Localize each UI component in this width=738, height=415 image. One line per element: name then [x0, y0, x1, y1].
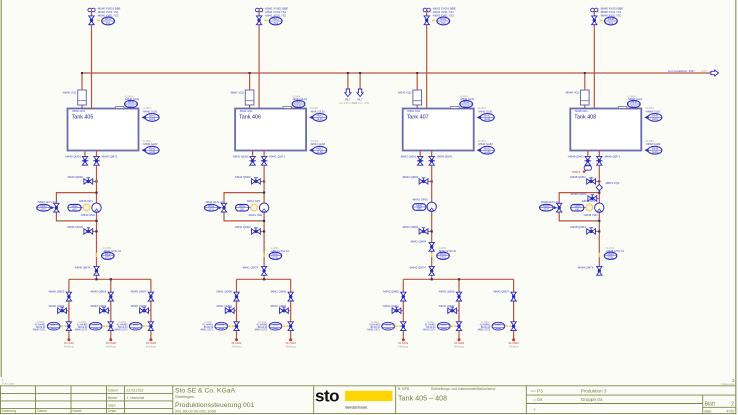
instrument M640 GT1 bubble — [102, 252, 115, 259]
svg-text:Tank 405 – 408: Tank 405 – 408 — [398, 394, 447, 403]
valve M642 QM01 — [417, 156, 424, 165]
wire QM03b stub — [588, 197, 599, 199]
wire QM02 stub — [587, 180, 599, 182]
instrument M642 GS71 bubble — [382, 322, 395, 330]
labels M640 XV01 — [94, 6, 121, 17]
node XL7A02 — [458, 338, 461, 341]
svg-text:M640: M640 — [149, 115, 156, 118]
labels M642 GT1 — [438, 247, 457, 253]
svg-text:Blatt: Blatt — [705, 409, 712, 413]
svg-text:-M641 QM02: -M641 QM02 — [234, 175, 251, 179]
valve M641 QM02 — [252, 178, 261, 184]
svg-text:-M640 QM01: -M640 QM01 — [65, 154, 82, 158]
drive symbol yellow — [251, 204, 258, 211]
pump M642 GP01 — [427, 202, 436, 211]
title block grid — [0, 386, 736, 414]
wire branch 406-1 — [236, 279, 238, 339]
wire tank 408 outlet main — [598, 151, 600, 157]
svg-text:-M641 GP1: -M641 GP1 — [246, 199, 261, 203]
svg-text:-M641 GT01 A1: -M641 GT01 A1 — [271, 249, 290, 253]
svg-text:-M640 GT01 A1: -M640 GT01 A1 — [103, 249, 122, 253]
node XL7A01 — [402, 338, 405, 341]
valve M642 QM71 — [428, 156, 435, 165]
svg-text:M642: M642 — [463, 101, 470, 104]
wire tank 408 outlet left — [587, 151, 589, 157]
wire tank 407 outlet left — [419, 151, 421, 157]
labels node XL7A02 — [454, 341, 465, 349]
labels M641 LS01 — [310, 107, 325, 113]
svg-text:Tank 406: Tank 406 — [239, 114, 261, 120]
labels branch sensor 407-3 — [477, 322, 491, 332]
instrument M642 LT1 top bubble — [460, 100, 473, 107]
label M640 LT1 — [125, 95, 140, 101]
valve loop M640 — [54, 203, 59, 212]
svg-text:-M642 QM01: -M642 QM01 — [400, 154, 417, 158]
inlet arrow RL1 — [345, 89, 351, 97]
valve M641 QM06 — [288, 292, 293, 301]
instrument M640 GS73 bubble — [129, 322, 142, 330]
node XL7A02 — [289, 338, 292, 341]
node top line tank 406 — [258, 12, 260, 113]
revision table labels — [2, 409, 82, 413]
svg-text:GL01: GL01 — [296, 105, 303, 108]
svg-text:Änderung: Änderung — [2, 409, 17, 413]
svg-text:XL7A01: XL7A01 — [398, 341, 409, 345]
svg-text:-M642 GS72: -M642 GS72 — [422, 329, 436, 331]
label M642 LT1 — [460, 95, 475, 101]
instrument M648 GF71 bubble — [540, 204, 554, 211]
signal dashes — [505, 325, 508, 327]
signal dashes — [395, 325, 398, 327]
inlet arrow RL2 — [357, 89, 363, 97]
wire tank 406 outlet main — [263, 151, 265, 157]
svg-text:-M648 GL01: -M648 GL01 — [627, 97, 642, 101]
wire main line 406 lower — [263, 165, 265, 266]
svg-text:-M642 GT01 A1: -M642 GT01 A1 — [438, 249, 457, 253]
wire QM72 stub — [280, 310, 291, 312]
svg-text:-M640 VQ1: -M640 VQ1 — [62, 91, 77, 95]
svg-text:Gepr.: Gepr. — [108, 404, 116, 408]
svg-text:-M640 GS71: -M640 GS71 — [32, 329, 46, 331]
svg-text:GL81: GL81 — [652, 118, 659, 121]
instrument M642 GS72 bubble — [437, 322, 450, 330]
svg-text:XV1: XV1 — [273, 22, 278, 25]
tank 406 labels — [239, 109, 261, 121]
labels M641 XV01 — [261, 6, 288, 17]
arrow to loop valve — [554, 206, 557, 209]
valve branch end 405-2 — [108, 322, 113, 331]
svg-text:M648: M648 — [652, 115, 659, 118]
pump M641 GP1 — [259, 203, 268, 212]
tank 408 labels — [574, 109, 596, 121]
svg-text:M648: M648 — [608, 18, 615, 21]
svg-text:XV1: XV1 — [609, 22, 614, 25]
svg-text:-M642 GL82: -M642 GL82 — [478, 142, 493, 146]
svg-text:Datum: Datum — [108, 389, 118, 393]
instrument M640 LS02 bubble — [142, 146, 160, 154]
svg-text:GL01: GL01 — [128, 105, 135, 108]
svg-text:-M642 GP01: -M642 GP01 — [412, 197, 428, 201]
instrument M648 LT1 top bubble — [627, 100, 640, 107]
wire stub RL1 — [347, 73, 349, 91]
valve M642 QM06 — [456, 292, 461, 301]
tank 408 — [570, 109, 641, 151]
svg-text:GL81: GL81 — [149, 118, 156, 121]
svg-text:M648: M648 — [631, 101, 638, 104]
svg-text:-M642 GS71: -M642 GS71 — [367, 329, 381, 331]
labels node XL7A03 — [508, 341, 519, 349]
svg-text:Abfüllung: Abfüllung — [398, 345, 409, 348]
valve M642 QM03 — [419, 228, 428, 234]
valve branch end 407-3 — [511, 322, 516, 331]
svg-text:Abfüllung: Abfüllung — [232, 345, 243, 348]
svg-text:-M641 QM71: -M641 QM71 — [269, 154, 286, 158]
svg-text:Produktion 3: Produktion 3 — [581, 389, 607, 394]
svg-text:-M642 GL01: -M642 GL01 — [460, 97, 475, 101]
svg-text:Tank 405: Tank 405 — [72, 114, 94, 120]
instrument M642 GT1 bubble — [437, 252, 450, 259]
svg-text:M641: M641 — [273, 18, 280, 21]
svg-text:XL7A02: XL7A02 — [106, 341, 117, 345]
svg-text:TNB74: TNB74 — [572, 170, 581, 174]
node XL7A01 — [235, 338, 238, 341]
node top line tank 407 — [426, 12, 428, 113]
labels node XL7A01 — [231, 341, 242, 349]
svg-text:-M642 QM71: -M642 QM71 — [382, 304, 399, 308]
svg-text:B. MPB: B. MPB — [398, 387, 410, 391]
svg-text:GL82: GL82 — [149, 151, 156, 154]
svg-text:-M642 QM05: -M642 QM05 — [382, 289, 399, 293]
svg-text:GF71: GF71 — [41, 208, 48, 211]
svg-text:-M642 GN1: -M642 GN1 — [407, 109, 421, 113]
tank 408 nozzle — [618, 107, 627, 109]
wire sample stub — [587, 164, 589, 167]
svg-text:XL7A02: XL7A02 — [286, 341, 297, 345]
labels branch sensor 406-2 — [254, 322, 268, 332]
valve loop M641 — [221, 203, 226, 212]
wire branch 406-2 — [290, 279, 292, 339]
svg-text:M640: M640 — [105, 18, 112, 21]
plant block — [531, 389, 607, 412]
svg-text:J. Hauschel: J. Hauschel — [127, 396, 145, 400]
valve M640 QM01 — [82, 156, 89, 165]
svg-text:-M641 QM03: -M641 QM03 — [234, 225, 251, 229]
svg-text:-M641 QM05: -M641 QM05 — [216, 289, 233, 293]
company block — [175, 387, 255, 413]
svg-text:GL82: GL82 — [317, 151, 324, 154]
svg-text:-M641 GL01: -M641 GL01 — [292, 97, 307, 101]
instrument M641 LT1 top bubble — [292, 100, 305, 107]
svg-text:-M640 QM71: -M640 QM71 — [48, 304, 65, 308]
svg-text:Tank 408: Tank 408 — [574, 114, 596, 120]
svg-text:von 4.04 u. 4.05: von 4.04 u. 4.05 — [351, 102, 370, 105]
instrument M641 GS71 bubble — [215, 322, 228, 330]
vent V407 — [423, 8, 430, 12]
valve M642 QM74 — [429, 266, 434, 275]
svg-text:M642: M642 — [440, 18, 447, 21]
wire header pipe — [82, 72, 713, 74]
svg-text:-M648 QM03: -M648 QM03 — [570, 192, 587, 196]
instrument M640 GS72 bubble — [89, 322, 102, 330]
labels node XL7A02 — [286, 341, 297, 349]
valve M641 XV01 — [256, 16, 261, 25]
svg-text:-M648 GL81: -M648 GL81 — [645, 109, 660, 113]
valve M641 QM74 — [261, 266, 266, 275]
svg-text:M641: M641 — [317, 147, 324, 150]
svg-text:-M641 GS71: -M641 GS71 — [200, 329, 214, 331]
svg-text:-M648 GT01 A1: -M648 GT01 A1 — [606, 249, 625, 253]
instrument M641 GF71 bubble — [204, 204, 218, 211]
instrument M640 LT1 top bubble — [125, 100, 138, 107]
svg-text:-M640 QM03: -M640 QM03 — [67, 225, 84, 229]
wire main line 408 lower — [598, 165, 600, 266]
node XL7A01 — [67, 338, 70, 341]
valve M640 QM71 — [58, 307, 67, 313]
labels M642 LS01 — [478, 107, 493, 113]
svg-text:-M640 QM02: -M640 QM02 — [67, 175, 84, 179]
tank 407 nozzle — [451, 107, 460, 109]
svg-text:-M648 QM71: -M648 QM71 — [604, 154, 621, 158]
labels node XL7A01 — [398, 341, 409, 349]
svg-text:XL7A03: XL7A03 — [508, 341, 519, 345]
instrument M642 XV1 bubble — [437, 17, 450, 25]
signal dashes — [282, 325, 285, 327]
labels node XL7A03 — [146, 341, 157, 349]
tank 405 nozzle — [116, 107, 125, 109]
instrument M640 GF71 bubble — [37, 204, 51, 211]
svg-text:-M641 GN1: -M641 GN1 — [239, 109, 253, 113]
wire branch 407-3 — [513, 279, 515, 339]
valve M640 QM03 — [84, 228, 93, 234]
valve M640 QM71 — [93, 156, 100, 165]
signal dashes — [60, 325, 63, 327]
wire manifold 406 — [237, 278, 291, 280]
svg-text:-M640 QM07: -M640 QM07 — [130, 289, 147, 293]
svg-text:001.09.02.00.001.1000: 001.09.02.00.001.1000 — [175, 409, 217, 414]
wire QM71 stub — [58, 310, 69, 312]
svg-text:-M648 GN1: -M648 GN1 — [574, 109, 588, 113]
svg-text:Blatt: Blatt — [705, 402, 716, 408]
labels M648 LS01 — [645, 107, 660, 113]
svg-text:GL01: GL01 — [463, 105, 470, 108]
page left border — [0, 0, 2, 377]
svg-text:-M642 GL81: -M642 GL81 — [478, 109, 493, 113]
svg-text:-M640 QM73: -M640 QM73 — [130, 304, 147, 308]
svg-text:Abfüllung: Abfüllung — [454, 345, 465, 348]
labels pump M648 GP1 — [581, 199, 598, 217]
svg-text:GL01: GL01 — [631, 105, 638, 108]
svg-text:-M648 VQ1: -M648 VQ1 — [565, 91, 580, 95]
labels branch sensor 405-2 — [74, 322, 88, 332]
signal dashes — [450, 325, 453, 327]
wire filter branch 406 — [249, 73, 251, 90]
svg-text:GL81: GL81 — [317, 118, 324, 121]
svg-text:M642: M642 — [484, 115, 491, 118]
svg-text:-M648 QM01: -M648 QM01 — [567, 154, 584, 158]
instrument M641 LS02 bubble — [309, 146, 327, 154]
tank 405 labels — [72, 109, 94, 121]
pump M640 GP1 — [92, 203, 101, 212]
svg-text:RL7: RL7 — [345, 98, 351, 102]
instrument M648 LS02 bubble — [644, 146, 662, 154]
valve M648 QM01 — [585, 156, 592, 165]
labels M648 GT1 — [606, 247, 625, 253]
arrow to loop valve — [219, 206, 222, 209]
labels pump M641 GP1 — [246, 199, 263, 217]
valve M648 QM03b — [588, 195, 597, 201]
instrument M641 XV1 bubble — [269, 17, 282, 25]
wire filter branch 405 — [81, 73, 83, 90]
wire tank 407 outlet main — [431, 151, 433, 157]
wire filter outlet — [584, 105, 586, 110]
svg-text:GF1: GF1 — [240, 208, 245, 211]
valve M640 QM74 — [94, 266, 99, 275]
svg-text:-M641 VQ1: -M641 VQ1 — [230, 91, 245, 95]
svg-text:-M648 XM1: -M648 XM1 — [583, 213, 598, 217]
svg-text:Urspr: Urspr — [108, 409, 117, 413]
labels branch sensor 405-1 — [32, 322, 46, 332]
svg-text:Gruppe 04: Gruppe 04 — [581, 397, 603, 402]
svg-text:GT01: GT01 — [440, 256, 447, 259]
wire QM02 stub — [252, 180, 264, 182]
vent V406 — [256, 8, 263, 12]
sheet block — [705, 402, 735, 414]
wire QM03 stub — [587, 230, 599, 232]
svg-text:-M648 GL82: -M648 GL82 — [645, 142, 660, 146]
schema block — [398, 387, 495, 402]
instrument M648 GT1 bubble — [604, 252, 617, 259]
wire QM03 stub — [419, 230, 431, 232]
svg-text:GT01: GT01 — [105, 256, 112, 259]
drive tick yellow — [96, 253, 98, 258]
svg-text:M648: M648 — [652, 147, 659, 150]
corner note left — [2, 378, 15, 386]
instrument M641 GF1 capsule — [236, 204, 251, 211]
svg-text:-M642 QM74: -M642 QM74 — [409, 265, 426, 269]
labels branch sensor 407-1 — [367, 322, 381, 332]
valve branch end 405-3 — [148, 322, 153, 331]
svg-text:GL81: GL81 — [484, 118, 491, 121]
valve M648 QM02 — [587, 178, 596, 184]
valve M642 QM07 — [511, 292, 516, 301]
filter M641 VQ1 — [245, 90, 254, 105]
wire filter branch 407 — [416, 73, 418, 90]
labels M642 LS02 — [478, 140, 493, 146]
wire filter outlet — [249, 105, 251, 110]
valve M641 QM72 — [280, 307, 289, 313]
svg-text:-M640 GL81: -M640 GL81 — [143, 109, 158, 113]
labels node XL7A01 — [64, 341, 75, 349]
drive symbol yellow — [586, 204, 593, 211]
svg-text:+: + — [533, 407, 536, 412]
drive tick yellow — [431, 253, 433, 258]
svg-text:GT01: GT01 — [608, 256, 615, 259]
wire branch 405-3 — [150, 279, 152, 339]
svg-text:M641: M641 — [317, 115, 324, 118]
labels branch sensor 406-1 — [200, 322, 214, 332]
svg-text:-M640 QM05: -M640 QM05 — [48, 289, 65, 293]
svg-text:zum Ansatzbeh. 409 /: zum Ansatzbeh. 409 / — [668, 69, 695, 73]
wire manifold 407 — [403, 278, 513, 280]
instrument M640 GF1 capsule — [68, 204, 83, 211]
wire stub RL2 — [359, 73, 361, 91]
valve loop M648 — [557, 203, 562, 212]
valve M640 QM73 — [140, 307, 149, 313]
svg-text:4705: 4705 — [726, 409, 734, 413]
wire tank 406 outlet left — [252, 151, 254, 157]
svg-text:-M642 QM71: -M642 QM71 — [436, 154, 453, 158]
wire QM72 stub — [448, 310, 459, 312]
svg-text:-M642 QM72: -M642 QM72 — [438, 304, 455, 308]
svg-text:-M648 GP1: -M648 GP1 — [581, 199, 596, 203]
wire QM71 stub — [225, 310, 236, 312]
valve M648 QM71 — [596, 156, 603, 165]
labels M640 GT1 — [103, 247, 122, 253]
svg-text:Bearb.: Bearb. — [108, 396, 118, 400]
svg-text:-M640 XM1: -M640 XM1 — [81, 213, 96, 217]
wire QM02 stub — [84, 180, 96, 182]
header outlet arrow — [711, 70, 719, 76]
node XL7A02 — [109, 338, 112, 341]
svg-text:-M641 QM71: -M641 QM71 — [216, 304, 233, 308]
instrument M641 LS01 bubble — [309, 114, 327, 122]
labels M642 XV01 — [429, 6, 456, 17]
signal dashes — [228, 325, 231, 327]
svg-text:Kufe Sato: Kufe Sato — [2, 382, 15, 386]
instrument M640 GS71 bubble — [47, 322, 60, 330]
wire tank 405 outlet main — [96, 151, 98, 157]
valve M642 XV01 — [424, 16, 429, 25]
valve M641 QM05 — [234, 292, 239, 301]
tank 407 labels — [407, 109, 429, 121]
wire QM72 stub — [100, 310, 111, 312]
valve M640 QM07 — [148, 292, 153, 301]
valve M648 QM74 — [597, 266, 602, 275]
svg-text:XV1: XV1 — [441, 22, 446, 25]
wire main line 405 lower — [96, 165, 98, 266]
vent V408 — [591, 8, 598, 12]
wire QM02 stub — [419, 180, 431, 182]
instrument M640 LS01 bubble — [142, 114, 160, 122]
wire QM71 stub — [392, 310, 403, 312]
svg-text:XL7A03: XL7A03 — [146, 341, 157, 345]
wire filter outlet — [416, 105, 418, 110]
svg-text:-M642 QM03: -M642 QM03 — [402, 225, 419, 229]
svg-text:-M642 QM04: -M642 QM04 — [410, 240, 427, 244]
node top line tank 405 — [91, 12, 93, 113]
filter M640 VQ1 — [78, 90, 87, 105]
svg-text:Name: Name — [73, 409, 82, 413]
valve M641 QM71 — [225, 307, 234, 313]
instrument M641 GS72 bubble — [269, 322, 282, 330]
labels M640 LS02 — [143, 140, 158, 146]
svg-text:-M640 QM71: -M640 QM71 — [101, 154, 118, 158]
svg-text:-M648 QM03: -M648 QM03 — [569, 225, 586, 229]
signal dashes — [142, 325, 145, 327]
instrument M642 GS73 bubble — [492, 322, 505, 330]
wire pump loop — [559, 193, 599, 221]
diamond M8P1 VQ2 — [596, 184, 602, 190]
valve branch end 406-1 — [234, 322, 239, 331]
wire main line 407 lower — [431, 165, 433, 266]
node top line tank 408 — [593, 12, 595, 113]
svg-text:GF71: GF71 — [543, 208, 550, 211]
valve M648 XV01 — [592, 16, 597, 25]
valve M642 QM02 — [419, 178, 428, 184]
svg-text:Datum: Datum — [37, 409, 47, 413]
svg-text:-M641 QM01: -M641 QM01 — [232, 154, 249, 158]
filter M648 VQ1 — [581, 90, 590, 105]
